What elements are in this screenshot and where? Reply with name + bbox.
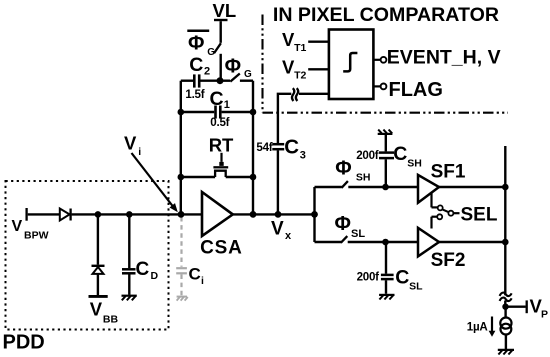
wire CSA output [233,213,315,215]
current source 1uA [504,307,506,318]
wire main input line [28,213,60,215]
wire SF2 output [439,241,505,243]
svg-text:SF1: SF1 [431,162,466,183]
buffer SF1 [418,175,439,203]
current arrow [491,317,493,332]
svg-text:RT: RT [209,135,234,156]
buffer SF2 [418,228,439,257]
junction branch split [311,211,318,218]
svg-text:200f: 200f [356,149,379,162]
junction RT right [250,174,257,181]
svg-text:VL: VL [213,0,237,21]
output EVENT stub [373,59,380,61]
wire VT1 input [308,41,329,43]
svg-text:0.5f: 0.5f [210,116,229,129]
hysteresis symbol [343,53,357,71]
junction SF1 output rail [502,184,509,191]
svg-text:T1: T1 [294,42,306,54]
svg-text:V: V [271,219,284,240]
junction C1 right [250,109,257,116]
svg-text:x: x [285,230,292,242]
svg-text:PDD: PDD [3,332,45,354]
node Vi CSA input [178,211,185,218]
svg-text:V: V [124,133,137,154]
wire branch to VBB diode [97,214,99,264]
wire VT2 input [308,68,329,70]
terminal VBB [89,295,108,298]
svg-text:C: C [284,135,299,158]
svg-text:SL: SL [351,228,365,240]
diode D2 [92,265,105,267]
switch phiSH [315,186,342,188]
svg-text:Φ: Φ [335,213,351,235]
junction CSH node [382,184,389,191]
svg-text:C: C [136,259,150,280]
svg-text:200f: 200f [357,271,380,284]
svg-text:1: 1 [224,99,230,111]
capacitor C1 [181,111,214,113]
svg-text:C: C [189,54,203,76]
switch SEL [430,193,432,207]
transistor RT [181,176,215,178]
boundary dash-dot lines [261,15,263,113]
svg-text:SH: SH [356,171,371,183]
junction C1 left [178,109,185,116]
svg-text:IN PIXEL COMPARATOR: IN PIXEL COMPARATOR [273,4,499,26]
wire break squiggle comparator input [292,88,294,101]
svg-text:3: 3 [300,150,306,162]
output rail [504,146,506,295]
top reference hatch CSH [378,133,393,135]
svg-text:SH: SH [407,158,422,170]
junction diode anode branch [95,211,102,218]
junction CSL node [382,239,389,246]
svg-text:CSA: CSA [200,237,243,258]
svg-text:Φ: Φ [225,55,241,77]
svg-text:D: D [151,270,159,282]
svg-text:C: C [393,143,407,165]
wire SF1 output [439,186,505,188]
wire branch to CD [128,214,130,268]
svg-text:BB: BB [103,313,119,325]
feedback right rail [252,81,254,215]
svg-text:G: G [207,47,215,58]
ground under current source [498,349,514,351]
capacitor CD [122,268,136,271]
node Vx C3 tap [275,211,282,218]
svg-text:i: i [138,146,141,158]
svg-text:i: i [201,275,204,287]
junction VP node [502,304,508,310]
svg-text:Φ: Φ [188,33,204,55]
output FLAG stub [373,85,380,87]
svg-text:C: C [189,265,201,284]
capacitor CSL [385,242,387,274]
svg-text:54f: 54f [256,141,272,154]
svg-text:C: C [395,266,409,288]
svg-text:P: P [541,309,548,321]
svg-text:V: V [282,29,295,50]
svg-text:SL: SL [409,281,423,293]
comparator box U1 [329,30,374,100]
PDD dotted box [6,181,169,330]
diode D1 [60,209,70,221]
feedback left rail [180,81,182,215]
switch phiG [220,79,230,81]
svg-text:2: 2 [204,65,210,77]
junction VL switch node [217,77,224,84]
svg-text:V: V [12,218,23,235]
svg-text:V: V [282,56,295,77]
capacitor C3 branch [277,150,279,214]
junction CSA output feedback [250,211,257,218]
svg-text:G: G [244,69,252,80]
svg-text:BPW: BPW [24,229,49,241]
svg-text:Φ: Φ [335,157,351,179]
switch phiGbar [214,43,221,53]
svg-text:EVENT_H, V: EVENT_H, V [387,46,501,68]
ground under CD [122,295,137,297]
wire break squiggle rail [500,293,512,296]
branch node vertical [313,187,315,242]
Vi arrow [132,153,174,207]
wire to VP terminal [505,306,525,308]
svg-text:SEL: SEL [461,205,498,226]
svg-text:1.5f: 1.5f [185,88,204,101]
svg-text:SF2: SF2 [431,250,466,271]
gray Ci capacitor [176,217,188,301]
junction RT left [178,174,185,181]
svg-text:C: C [210,88,224,110]
capacitor C2 [181,79,193,81]
svg-text:1µA: 1µA [467,321,489,334]
capacitor CSH [385,159,387,187]
switch phiSL [315,241,342,243]
terminal VL [214,19,228,21]
terminal VBPW [25,208,27,221]
CSA amplifier [202,192,233,236]
junction CD branch [126,211,133,218]
svg-text:FLAG: FLAG [389,79,443,101]
svg-text:V: V [90,298,103,319]
ground under CSL [379,294,394,296]
junction SF2 output rail [502,239,509,246]
svg-text:T2: T2 [294,69,306,81]
